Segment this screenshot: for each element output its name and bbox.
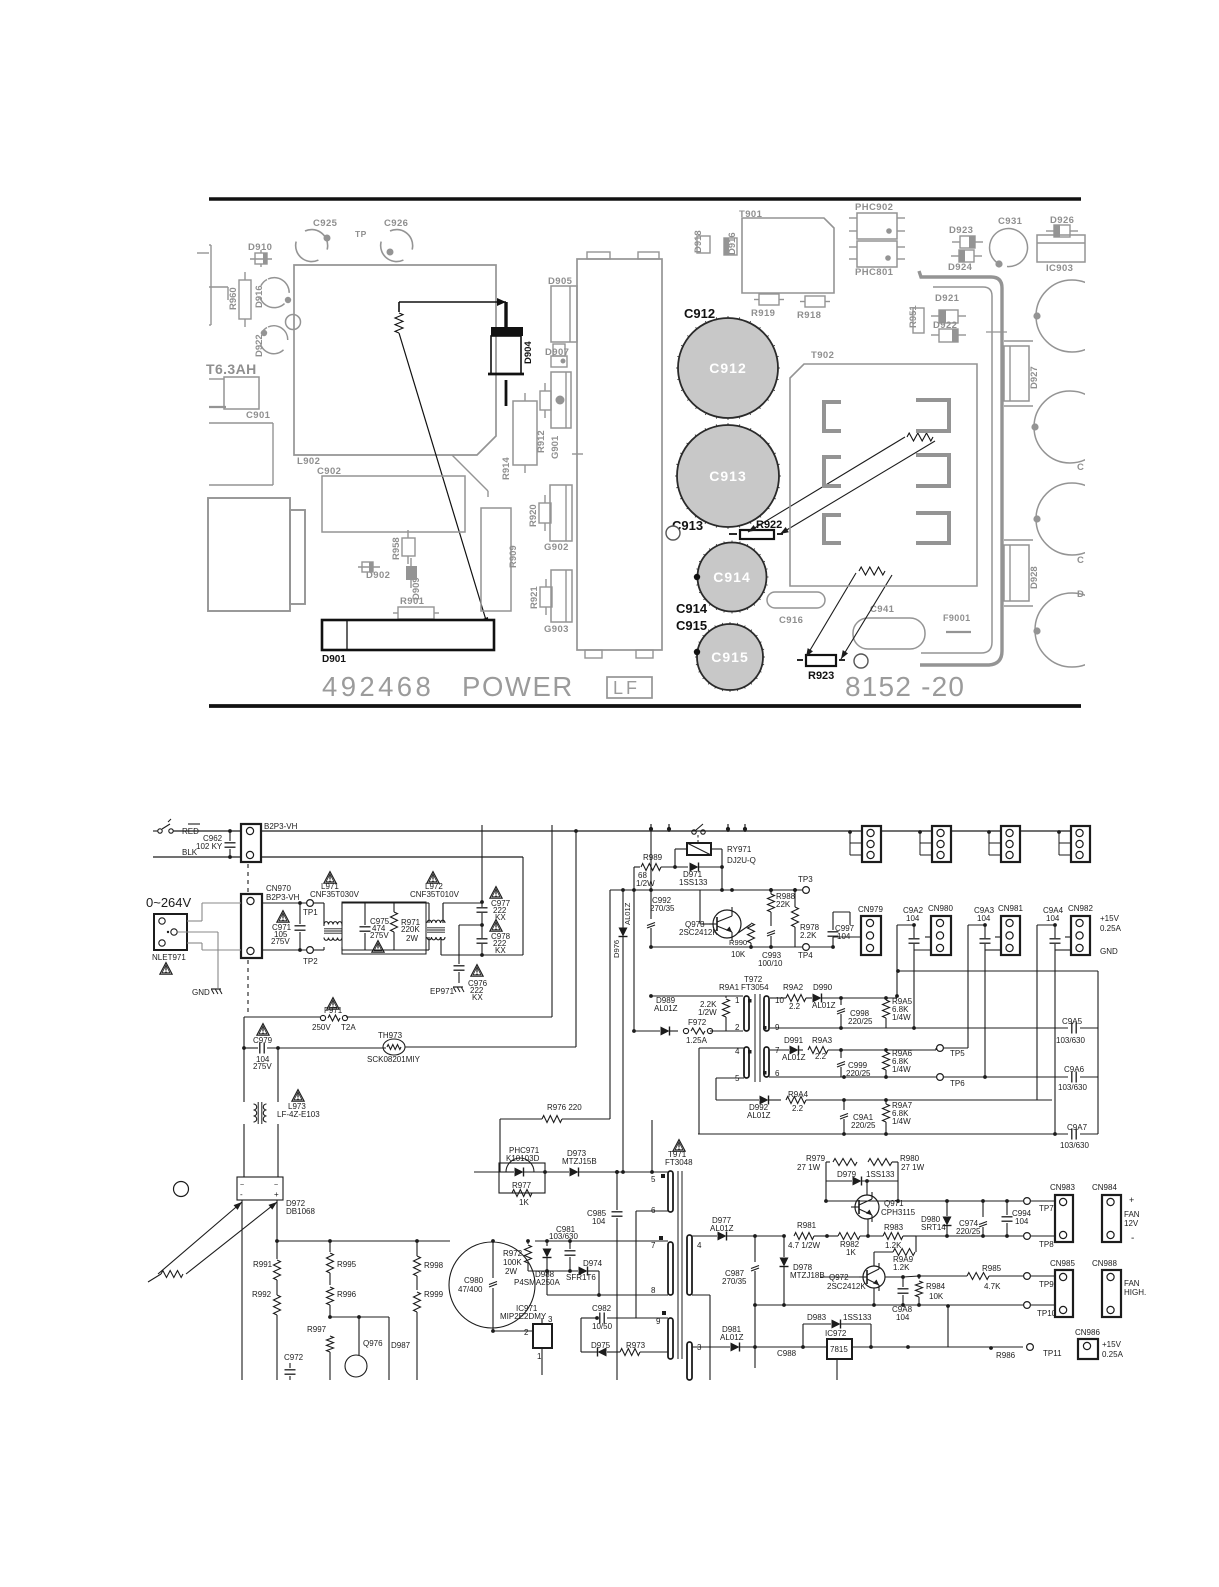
resistor R919	[754, 299, 759, 301]
svg-text:2: 2	[524, 1328, 529, 1337]
wire to D904	[399, 301, 506, 303]
svg-text:T6.3AH: T6.3AH	[206, 361, 257, 377]
svg-text:103/630: 103/630	[549, 1232, 578, 1241]
via near C913	[666, 526, 680, 540]
svg-text:Q976: Q976	[363, 1339, 383, 1348]
svg-text:104: 104	[906, 914, 920, 923]
svg-text:C915: C915	[711, 649, 748, 665]
svg-text:220/25: 220/25	[851, 1121, 876, 1130]
bottom loop bus	[698, 1133, 1068, 1135]
wire BLK rail	[153, 856, 242, 858]
svg-text:R901: R901	[400, 596, 425, 607]
svg-text:DB1068: DB1068	[286, 1207, 315, 1216]
svg-text:D910: D910	[248, 242, 272, 253]
diode D928	[1004, 545, 1029, 601]
pointer lines R922	[748, 437, 905, 532]
svg-text:R981: R981	[797, 1221, 817, 1230]
svg-text:CN979: CN979	[858, 905, 883, 914]
pointer lines R923	[806, 573, 856, 657]
trace tick	[986, 331, 1007, 333]
svg-text:1K: 1K	[846, 1248, 856, 1257]
TP7	[1024, 1198, 1031, 1205]
svg-text:AL01Z: AL01Z	[812, 1001, 836, 1010]
svg-text:TP: TP	[355, 229, 367, 239]
warning triangle L971	[324, 872, 336, 884]
resistor R912	[540, 391, 551, 410]
svg-text:MTZJ18B: MTZJ18B	[790, 1271, 825, 1280]
T971 winding 5-6	[668, 1171, 673, 1212]
wire fragment left	[209, 286, 228, 288]
svg-text:R920: R920	[528, 504, 539, 527]
svg-text:CN988: CN988	[1092, 1259, 1117, 1268]
TP11	[1027, 1344, 1034, 1351]
svg-text:CPH3115: CPH3115	[881, 1208, 916, 1217]
svg-text:C914: C914	[713, 569, 750, 585]
warning triangle F971	[327, 998, 339, 1010]
vertical wire x610	[609, 890, 611, 1119]
svg-text:492468: 492468	[322, 671, 434, 702]
TP3	[803, 887, 810, 894]
R9A7	[885, 1100, 887, 1104]
R9A6	[885, 1050, 887, 1052]
svg-text:TP6: TP6	[950, 1079, 965, 1088]
T971 transformer	[673, 1140, 685, 1152]
svg-text:104: 104	[1015, 1217, 1029, 1226]
svg-text:R989: R989	[643, 853, 663, 862]
left chain verticals	[243, 1048, 245, 1100]
wire RED rail	[173, 830, 242, 832]
svg-text:C9A6: C9A6	[1064, 1065, 1085, 1074]
svg-text:PHC801: PHC801	[855, 267, 894, 278]
D975 R973 row	[580, 1318, 582, 1352]
T972 winding 7-6	[764, 1047, 769, 1077]
svg-text:275V: 275V	[253, 1062, 272, 1071]
svg-text:R991: R991	[253, 1260, 273, 1269]
svg-text:+: +	[1129, 1195, 1134, 1205]
TP5	[937, 1045, 944, 1052]
T902 bracket 4	[916, 455, 949, 486]
fuse holder	[224, 377, 259, 409]
transistor D904 body	[491, 327, 523, 336]
svg-text:C980: C980	[464, 1276, 484, 1285]
svg-text:102 KY: 102 KY	[196, 842, 223, 851]
T971 right winding 3	[687, 1342, 692, 1380]
svg-text:C914: C914	[676, 601, 708, 616]
D901 bridge black rectangle	[322, 620, 494, 650]
diode D927	[1004, 346, 1029, 401]
svg-text:CN986: CN986	[1075, 1328, 1100, 1337]
svg-text:TH973: TH973	[378, 1031, 403, 1040]
svg-text:8152 -20: 8152 -20	[845, 671, 965, 702]
via circle left	[174, 1182, 189, 1197]
vertical wire x634	[633, 867, 635, 1031]
C985 vertical	[616, 1172, 618, 1210]
svg-text:104: 104	[1046, 914, 1060, 923]
svg-text:~: ~	[240, 1182, 244, 1189]
Q972	[863, 1266, 885, 1288]
TP4	[803, 944, 810, 951]
svg-text:LF: LF	[613, 678, 640, 698]
svg-text:EP971: EP971	[430, 987, 455, 996]
right cap circle 4	[1035, 593, 1109, 667]
wire to EP971	[459, 924, 482, 926]
svg-text:27 1W: 27 1W	[901, 1163, 925, 1172]
svg-text:104: 104	[592, 1217, 606, 1226]
svg-text:D927: D927	[1029, 366, 1040, 389]
svg-text:CN970: CN970	[266, 884, 291, 893]
svg-text:C912: C912	[709, 360, 746, 376]
svg-text:2W: 2W	[406, 934, 418, 943]
svg-text:AL01Z: AL01Z	[782, 1053, 806, 1062]
top right connectors	[862, 826, 881, 862]
svg-text:D901: D901	[322, 654, 346, 665]
connector B2P3-VH	[241, 824, 261, 862]
svg-text:C901: C901	[246, 410, 271, 421]
heatsink outline	[577, 259, 662, 650]
svg-text:8: 8	[651, 1286, 656, 1295]
svg-text:GND: GND	[192, 988, 210, 997]
svg-text:AL01Z: AL01Z	[654, 1004, 678, 1013]
connector row wires	[833, 911, 850, 913]
transistor G902 block	[550, 485, 572, 541]
svg-text:MTZJ15B: MTZJ15B	[562, 1157, 597, 1166]
svg-text:T902: T902	[811, 350, 834, 361]
svg-text:275V: 275V	[271, 937, 290, 946]
T902 bracket 5	[824, 515, 841, 543]
svg-text:TP4: TP4	[798, 951, 813, 960]
svg-text:D975: D975	[591, 1341, 611, 1350]
svg-text:R999: R999	[424, 1290, 444, 1299]
svg-text:R985: R985	[982, 1264, 1002, 1273]
T902 bracket 2	[916, 400, 949, 431]
svg-text:270/35: 270/35	[722, 1277, 747, 1286]
svg-text:D987: D987	[391, 1341, 411, 1350]
svg-text:TP5: TP5	[950, 1049, 965, 1058]
svg-text:4.7K: 4.7K	[984, 1282, 1001, 1291]
svg-text:R960: R960	[228, 287, 239, 310]
D977 row	[692, 1235, 717, 1237]
Q972 base wire	[820, 1276, 863, 1278]
bottom cut wires	[836, 1360, 838, 1380]
svg-text:2W: 2W	[505, 1267, 517, 1276]
svg-text:R923: R923	[808, 670, 834, 682]
svg-text:AL01Z: AL01Z	[623, 902, 632, 925]
capacitor C980	[449, 1242, 535, 1328]
svg-text:C915: C915	[676, 618, 707, 633]
svg-text:270/35: 270/35	[650, 904, 675, 913]
T971 right winding 4	[687, 1235, 692, 1295]
svg-text:+15V: +15V	[1100, 914, 1120, 923]
svg-text:D918: D918	[693, 230, 704, 253]
svg-text:TP3: TP3	[798, 875, 813, 884]
warning triangle L972	[427, 872, 439, 884]
svg-text:C982: C982	[592, 1304, 612, 1313]
svg-text:KX: KX	[495, 946, 506, 955]
filter box	[342, 902, 426, 954]
interlock switch	[692, 830, 696, 834]
L902 block outline	[294, 265, 496, 455]
svg-text:AL01Z: AL01Z	[720, 1333, 744, 1342]
switch S	[158, 829, 162, 833]
svg-text:TP9: TP9	[1039, 1280, 1054, 1289]
svg-text:CN982: CN982	[1068, 904, 1093, 913]
svg-text:D923: D923	[949, 225, 973, 236]
FAN12 plus row	[825, 1181, 827, 1201]
svg-text:D976: D976	[612, 940, 621, 958]
svg-text:D983: D983	[807, 1313, 827, 1322]
svg-text:C979: C979	[253, 1036, 273, 1045]
svg-text:HIGH.: HIGH.	[1124, 1288, 1146, 1297]
svg-text:R992: R992	[252, 1290, 272, 1299]
svg-text:R998: R998	[424, 1261, 444, 1270]
svg-text:MIP2E2DMY: MIP2E2DMY	[500, 1312, 547, 1321]
resistor R921	[540, 587, 552, 607]
svg-text:-: -	[1131, 1233, 1134, 1244]
T971 winding 7-8	[668, 1242, 673, 1295]
svg-text:T2A: T2A	[341, 1023, 356, 1032]
diagonal pointer line to D901	[399, 333, 489, 630]
capacitor C975	[364, 903, 366, 925]
svg-text:D928: D928	[1029, 566, 1040, 589]
svg-text:D924: D924	[948, 262, 973, 273]
right rail verticals	[551, 825, 553, 1017]
svg-text:P4SMA250A: P4SMA250A	[514, 1278, 560, 1287]
svg-text:4.7 1/2W: 4.7 1/2W	[788, 1241, 820, 1250]
resistor symbol T902 top	[907, 433, 933, 441]
svg-text:1/4W: 1/4W	[892, 1013, 911, 1022]
optocoupler PHC801	[857, 241, 897, 267]
capacitor C912	[678, 318, 778, 418]
svg-text:AL01Z: AL01Z	[710, 1224, 734, 1233]
svg-text:TP11: TP11	[1043, 1349, 1062, 1358]
capacitor C941 stadium	[853, 618, 925, 649]
relay RY971	[687, 843, 711, 855]
svg-text:7815: 7815	[830, 1345, 848, 1354]
T902 bracket 1	[824, 402, 841, 431]
svg-text:R958: R958	[391, 537, 402, 560]
svg-text:FAN: FAN	[1124, 1279, 1140, 1288]
diode D988	[546, 1241, 548, 1246]
svg-text:CN985: CN985	[1050, 1259, 1075, 1268]
svg-text:104: 104	[977, 914, 991, 923]
svg-text:C925: C925	[313, 218, 338, 229]
svg-text:~: ~	[274, 1182, 278, 1189]
svg-text:6: 6	[651, 1206, 656, 1215]
svg-text:250V: 250V	[312, 1023, 331, 1032]
svg-text:1.25A: 1.25A	[686, 1036, 708, 1045]
resistor R914 block	[513, 401, 537, 465]
diode D974 row	[528, 1270, 578, 1272]
svg-text:NLET971: NLET971	[152, 953, 186, 962]
TP6 row	[769, 1076, 936, 1078]
right cap circle 1	[1031, 280, 1109, 667]
Q972 emitter	[873, 1288, 875, 1305]
svg-text:100K: 100K	[503, 1258, 522, 1267]
svg-text:C: C	[1077, 462, 1084, 473]
via hole	[286, 315, 301, 330]
svg-text:0.25A: 0.25A	[1100, 924, 1122, 933]
svg-text:FAN: FAN	[1124, 1210, 1140, 1219]
svg-text:100/10: 100/10	[758, 959, 783, 968]
T902 bracket 6	[916, 513, 949, 543]
svg-text:IC972: IC972	[825, 1329, 847, 1338]
svg-text:R921: R921	[529, 586, 540, 609]
svg-text:CNF35T030V: CNF35T030V	[310, 890, 360, 899]
svg-text:103/630: 103/630	[1058, 1083, 1087, 1092]
svg-text:R912: R912	[536, 430, 547, 453]
R9A5	[885, 998, 887, 1000]
capacitor C915	[697, 624, 763, 690]
svg-text:C931: C931	[998, 216, 1023, 227]
C993 100/10	[767, 931, 775, 934]
T972 winding 10-9	[764, 996, 769, 1031]
svg-text:2.2: 2.2	[792, 1104, 804, 1113]
svg-text:2SC2412K: 2SC2412K	[679, 928, 718, 937]
svg-text:R914: R914	[501, 457, 512, 480]
svg-text:B2P3-VH: B2P3-VH	[264, 822, 298, 831]
svg-text:1.2K: 1.2K	[893, 1263, 910, 1272]
svg-text:LF-4Z-E103: LF-4Z-E103	[277, 1110, 320, 1119]
wires filter	[342, 902, 426, 904]
svg-text:G901: G901	[550, 435, 561, 459]
svg-text:1SS133: 1SS133	[843, 1313, 872, 1322]
svg-text:27 1W: 27 1W	[797, 1163, 821, 1172]
via near R923	[854, 654, 868, 668]
svg-text:D990: D990	[813, 983, 833, 992]
svg-text:3: 3	[548, 1315, 553, 1324]
svg-text:D922: D922	[254, 334, 265, 357]
svg-text:SRT14: SRT14	[921, 1223, 946, 1232]
svg-text:R979: R979	[806, 1154, 826, 1163]
svg-text:0.25A: 0.25A	[1102, 1350, 1124, 1359]
transistor G903 block	[551, 570, 572, 622]
svg-text:R986: R986	[996, 1351, 1016, 1360]
svg-text:5: 5	[651, 1175, 656, 1184]
main DC rail	[277, 1240, 450, 1242]
svg-text:TP8: TP8	[1039, 1240, 1054, 1249]
svg-text:275V: 275V	[370, 931, 389, 940]
right cap circle 2	[1034, 391, 1106, 463]
svg-text:D: D	[1077, 589, 1084, 600]
NLET wires	[187, 920, 202, 922]
svg-text:CN980: CN980	[928, 904, 953, 913]
svg-text:SCK08201MIY: SCK08201MIY	[367, 1055, 421, 1064]
svg-text:4: 4	[697, 1241, 702, 1250]
ground symbol	[211, 988, 221, 990]
warning triangle NLET	[160, 963, 172, 975]
svg-text:TP2: TP2	[303, 957, 318, 966]
svg-text:F971: F971	[324, 1006, 343, 1015]
svg-text:D904: D904	[523, 341, 534, 364]
svg-text:+15V: +15V	[1102, 1340, 1122, 1349]
vertical D976 wire	[622, 890, 624, 1172]
svg-text:C: C	[1077, 555, 1084, 566]
left-edge component fragment	[210, 245, 212, 325]
svg-text:R990: R990	[729, 938, 747, 947]
svg-text:C9A7: C9A7	[1067, 1123, 1088, 1132]
svg-text:R977: R977	[512, 1181, 532, 1190]
svg-text:D974: D974	[583, 1259, 603, 1268]
svg-text:BLK: BLK	[182, 848, 198, 857]
svg-text:C912: C912	[684, 306, 715, 321]
PCB figure bottom border	[209, 704, 1081, 708]
svg-text:2.2K: 2.2K	[800, 931, 817, 940]
bridge D972	[237, 1177, 283, 1200]
svg-text:R9A3: R9A3	[812, 1036, 833, 1045]
svg-text:22K: 22K	[776, 900, 791, 909]
svg-text:R995: R995	[337, 1260, 357, 1269]
svg-text:D916: D916	[254, 285, 265, 308]
R988 22K	[770, 890, 772, 894]
svg-text:FT3048: FT3048	[665, 1158, 693, 1167]
svg-text:103/630: 103/630	[1060, 1141, 1089, 1150]
svg-text:12V: 12V	[1124, 1219, 1139, 1228]
svg-text:AL01Z: AL01Z	[747, 1111, 771, 1120]
svg-text:-: -	[240, 1190, 243, 1199]
D973 zener	[545, 1171, 569, 1173]
capacitor C914	[698, 543, 767, 612]
resistor pointer zigzag	[161, 1271, 183, 1278]
svg-text:47/400: 47/400	[458, 1285, 483, 1294]
T971 winding 9	[668, 1318, 673, 1359]
svg-text:1: 1	[537, 1352, 542, 1361]
C9A1 cap	[843, 1100, 845, 1110]
svg-text:2SC2412K: 2SC2412K	[827, 1282, 866, 1291]
svg-text:TP7: TP7	[1039, 1204, 1054, 1213]
svg-text:1/4W: 1/4W	[892, 1065, 911, 1074]
C982 row	[581, 1317, 597, 1319]
svg-text:F9001: F9001	[943, 613, 971, 623]
warning triangle C977	[490, 887, 502, 899]
svg-text:C926: C926	[384, 218, 408, 229]
svg-text:104: 104	[896, 1313, 910, 1322]
svg-text:1: 1	[735, 996, 740, 1005]
resistor R909 block	[481, 508, 511, 611]
svg-text:RY971: RY971	[727, 845, 752, 854]
svg-text:PHC902: PHC902	[855, 202, 893, 213]
svg-text:C972: C972	[284, 1353, 304, 1362]
rail crossing ticks	[650, 824, 652, 832]
C999	[840, 1050, 842, 1058]
svg-text:R9A4: R9A4	[788, 1090, 809, 1099]
capacitor C913	[677, 425, 779, 527]
pointer arrows to D972	[158, 1202, 242, 1274]
svg-text:CN983: CN983	[1050, 1183, 1075, 1192]
svg-text:D991: D991	[784, 1036, 804, 1045]
svg-text:R984: R984	[926, 1282, 946, 1291]
svg-text:103/630: 103/630	[1056, 1036, 1085, 1045]
svg-text:220K: 220K	[401, 925, 420, 934]
svg-text:CN981: CN981	[998, 904, 1023, 913]
svg-text:10: 10	[775, 996, 784, 1005]
svg-text:R919: R919	[751, 308, 775, 319]
svg-text:C916: C916	[779, 615, 803, 626]
svg-text:R980: R980	[900, 1154, 920, 1163]
svg-text:7: 7	[651, 1241, 656, 1250]
svg-text:10K: 10K	[731, 950, 746, 959]
svg-text:GND: GND	[1100, 947, 1118, 956]
wire F971 row	[244, 1016, 320, 1018]
svg-text:Q971: Q971	[884, 1199, 904, 1208]
resistor R971	[393, 903, 395, 912]
resistor symbol near C941	[859, 567, 885, 575]
right cap circle 3	[1036, 483, 1108, 555]
svg-text:D921: D921	[935, 293, 960, 304]
T902 bracket 3	[824, 457, 841, 486]
resistor R923 black	[806, 655, 836, 666]
thick trace outer	[919, 271, 1002, 665]
svg-text:1/2W: 1/2W	[698, 1008, 717, 1017]
